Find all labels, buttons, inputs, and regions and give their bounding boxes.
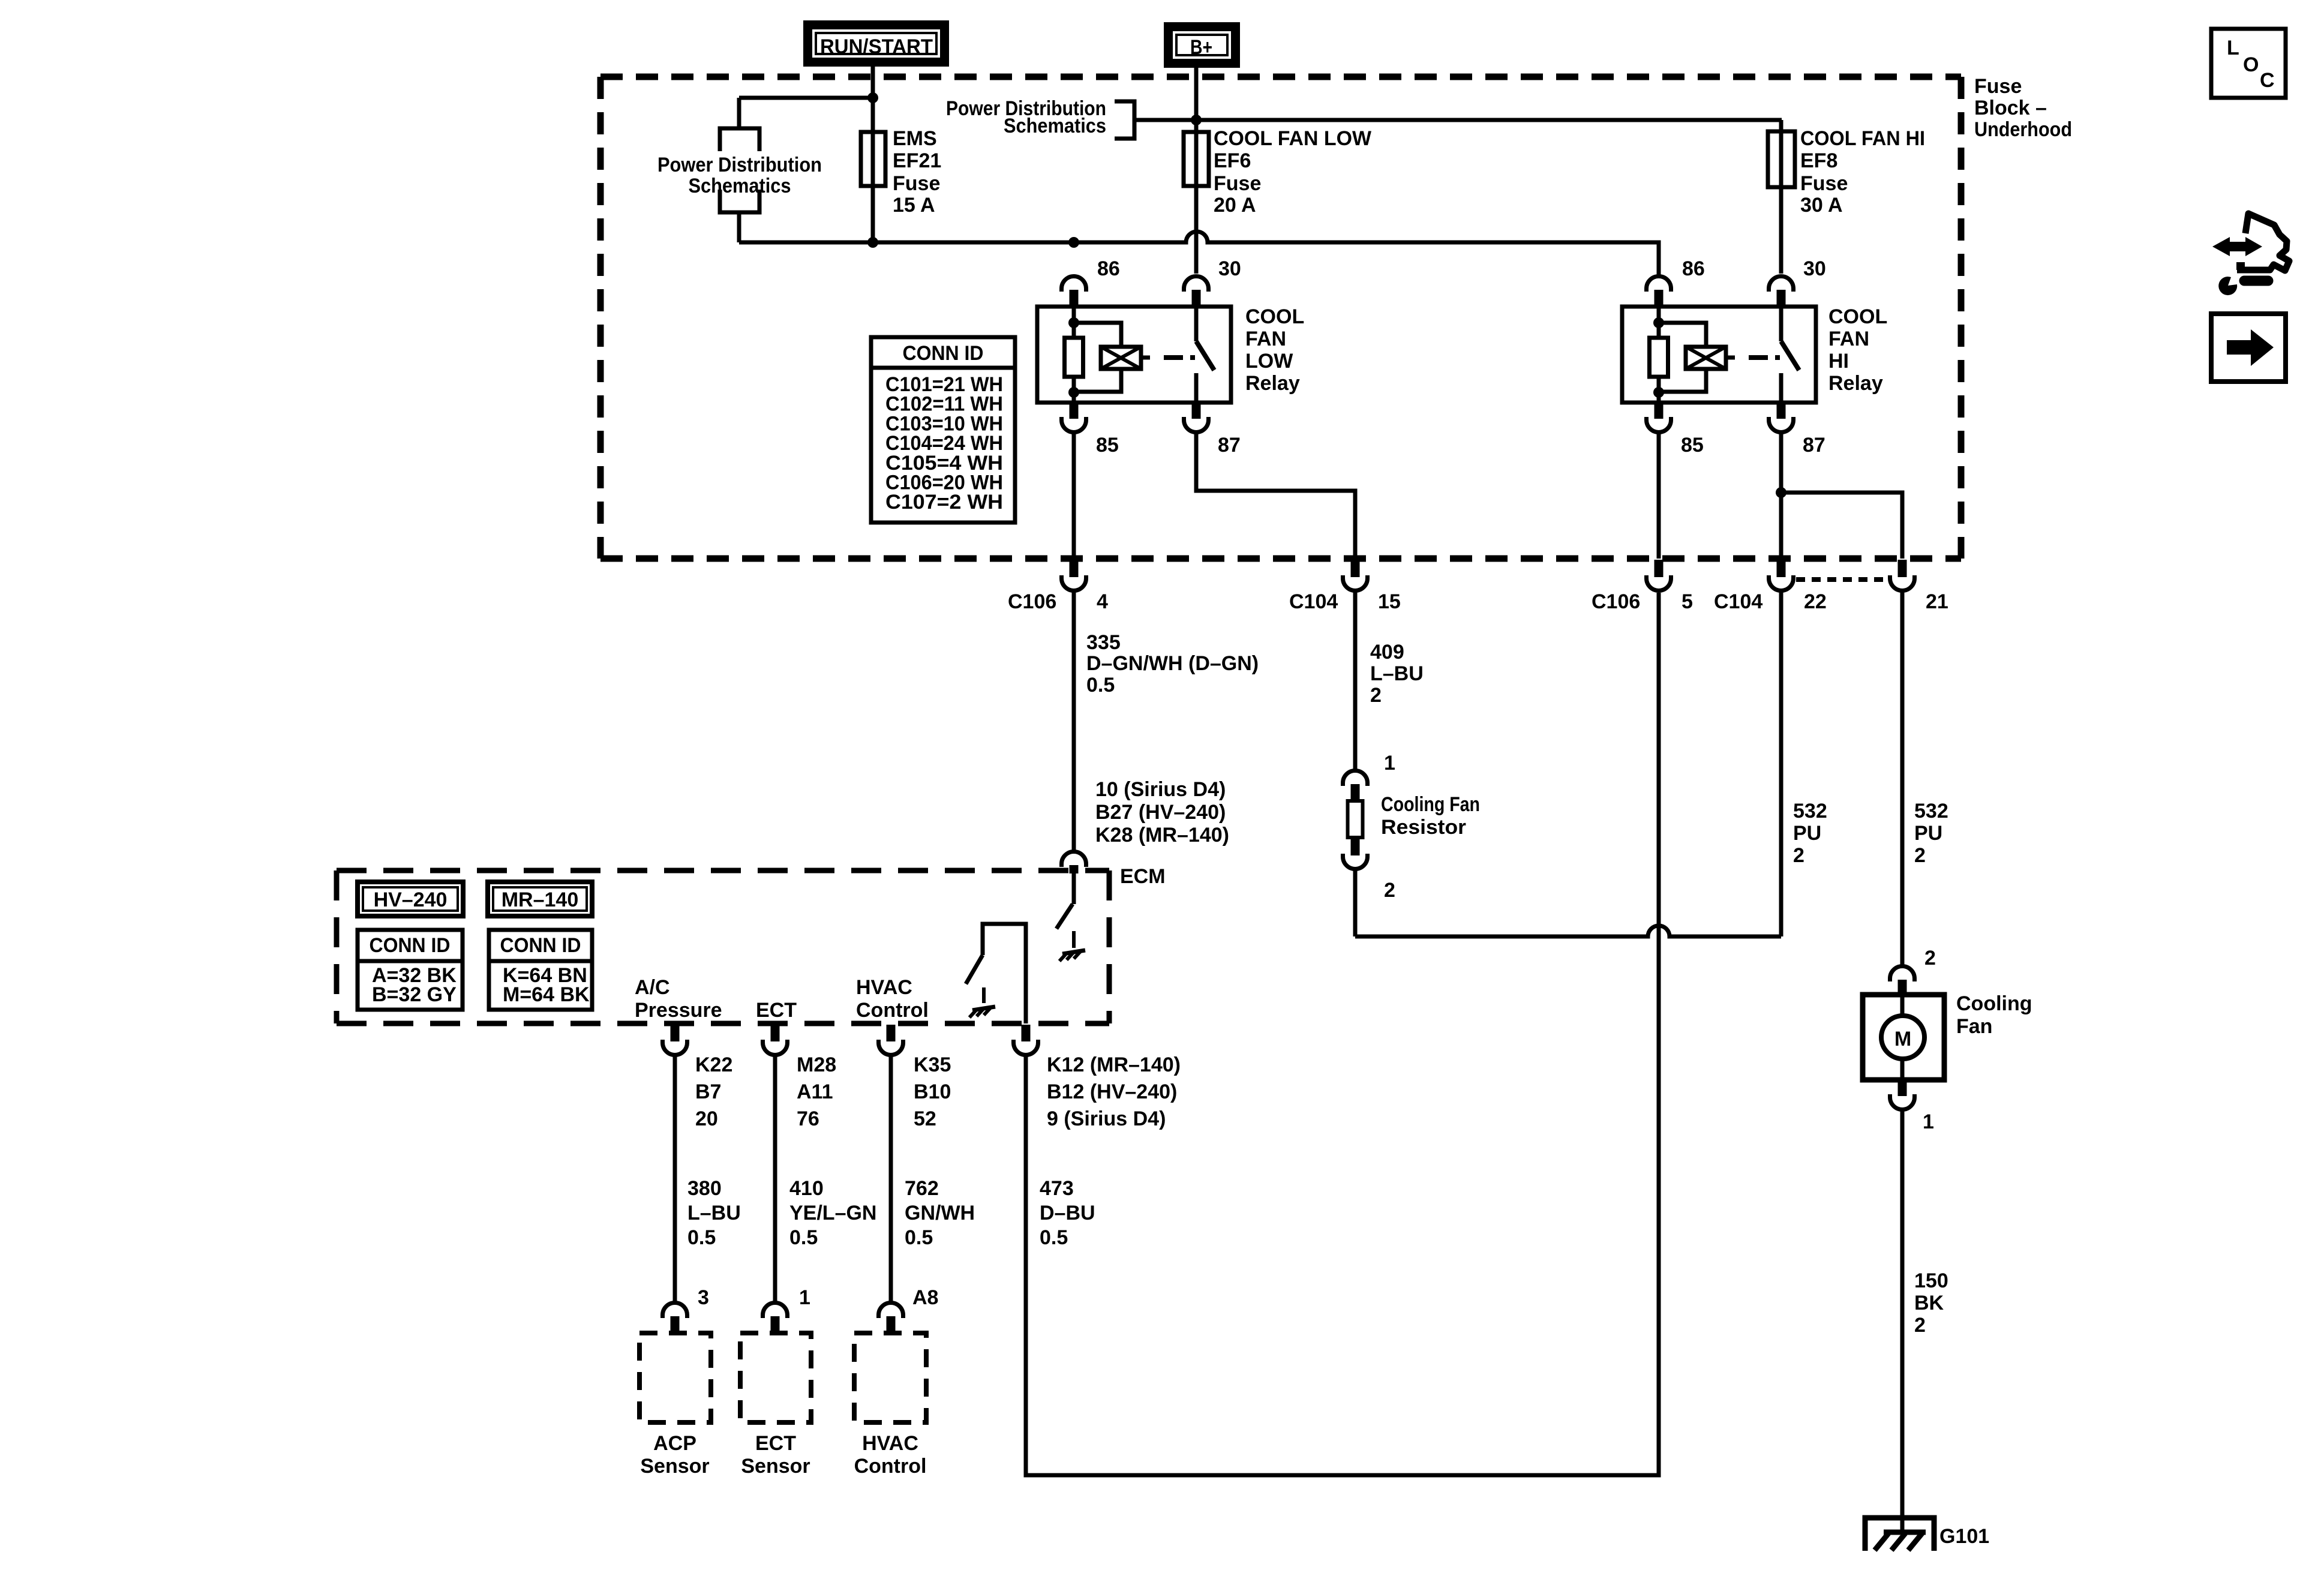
svg-text:B7: B7 xyxy=(695,1080,721,1103)
svg-text:2: 2 xyxy=(1924,947,1936,969)
labels ECM pin references K22 B7 20 xyxy=(695,1053,732,1130)
relay COOL FAN HI switch xyxy=(1781,307,1799,403)
svg-text:Resistor: Resistor xyxy=(1381,816,1466,839)
svg-text:B10: B10 xyxy=(914,1080,951,1103)
label HVAC Control xyxy=(854,1432,927,1478)
svg-text:YE/L–GN: YE/L–GN xyxy=(789,1202,876,1224)
wire: 86-feed bus with hop over EF6 wire xyxy=(739,232,1659,275)
svg-text:532: 532 xyxy=(1914,800,1948,822)
svg-text:COOL: COOL xyxy=(1828,305,1887,328)
svg-text:532: 532 xyxy=(1793,800,1827,822)
label wire 409 L-BU 2 xyxy=(1370,641,1424,707)
svg-text:1: 1 xyxy=(1384,752,1395,775)
svg-text:Fuse: Fuse xyxy=(1800,172,1848,195)
HVAC Control dashed box xyxy=(854,1333,926,1422)
svg-text:86: 86 xyxy=(1682,257,1705,280)
svg-text:COOL FAN LOW: COOL FAN LOW xyxy=(1214,127,1372,150)
sensor pin labels 3 1 A8 xyxy=(698,1286,938,1309)
label A/C Pressure xyxy=(635,976,722,1022)
label wire 532 PU 2 (left) xyxy=(1793,800,1827,867)
svg-text:M: M xyxy=(1894,1028,1911,1050)
labels M28 A11 76 xyxy=(797,1053,836,1130)
motor M symbol xyxy=(1881,1016,1924,1059)
svg-text:2: 2 xyxy=(1914,844,1926,867)
svg-text:0.5: 0.5 xyxy=(1086,674,1115,697)
svg-text:HV–240: HV–240 xyxy=(374,888,448,911)
label wire 762 GN/WH 0.5 xyxy=(905,1177,975,1249)
svg-text:M=64 BK: M=64 BK xyxy=(503,983,590,1006)
wire: B+ feed across to EF8 fuse xyxy=(1196,120,1782,274)
relay COOL FAN HI coil X-box symbol xyxy=(1686,347,1735,369)
relay COOL FAN LOW: pin 87 connector xyxy=(1184,403,1209,432)
svg-text:Underhood: Underhood xyxy=(1974,118,2072,141)
svg-text:85: 85 xyxy=(1096,434,1119,457)
svg-text:G101: G101 xyxy=(1939,1525,1989,1548)
svg-text:C104: C104 xyxy=(1714,590,1762,613)
node: bus junction at EMS fuse xyxy=(867,237,878,248)
svg-text:87: 87 xyxy=(1218,434,1241,457)
relay COOL FAN HI: pin 87 connector xyxy=(1769,403,1794,432)
svg-text:Fuse: Fuse xyxy=(893,172,940,195)
pin labels 86 30 85 87 of relay COOL FAN HI xyxy=(1681,257,1826,457)
dashed link between C104 cavities 22 and 21 xyxy=(1796,577,1888,582)
ECM CONN ID table A/B xyxy=(358,930,463,1010)
svg-text:15 A: 15 A xyxy=(893,194,935,217)
svg-text:0.5: 0.5 xyxy=(1040,1226,1068,1249)
svg-text:C: C xyxy=(2260,69,2275,92)
svg-text:52: 52 xyxy=(914,1107,936,1130)
svg-text:K28 (MR–140): K28 (MR–140) xyxy=(1095,824,1229,846)
svg-text:9 (Sirius D4): 9 (Sirius D4) xyxy=(1047,1107,1166,1130)
relay COOL FAN LOW actuation dashed link xyxy=(1164,355,1195,360)
relay COOL FAN HI coil circuit with parallel resistor xyxy=(1650,307,1707,403)
fuse EMS EF21 15A xyxy=(861,132,885,186)
svg-text:LOW: LOW xyxy=(1245,350,1293,373)
pin labels 86 30 85 87 of relay COOL FAN LOW xyxy=(1096,257,1241,457)
relay COOL FAN LOW coil X-box symbol xyxy=(1101,347,1150,369)
svg-text:2: 2 xyxy=(1370,684,1382,707)
svg-text:5: 5 xyxy=(1682,590,1693,613)
svg-text:C104: C104 xyxy=(1289,590,1338,613)
relay COOL FAN LOW coil circuit with parallel resistor xyxy=(1065,307,1122,403)
wire: RUN/START feed down to node xyxy=(871,67,875,98)
svg-text:Schematics: Schematics xyxy=(1004,115,1106,137)
relay COOL FAN HI outline box xyxy=(1622,307,1816,403)
svg-text:EF21: EF21 xyxy=(893,149,941,172)
fuse block dashed boundary (Fuse Block - Underhood) xyxy=(600,77,1961,559)
svg-text:M28: M28 xyxy=(797,1053,836,1076)
labels K12 (MR-140) B12 (HV-240) 9 (Sirius D4) xyxy=(1047,1053,1181,1130)
label wire 473 D-BU 0.5 xyxy=(1040,1177,1095,1249)
svg-text:EMS: EMS xyxy=(893,127,937,150)
svg-text:HVAC: HVAC xyxy=(862,1432,918,1455)
svg-text:A11: A11 xyxy=(797,1080,833,1103)
fuse COOL FAN LOW EF6 20A xyxy=(1184,132,1209,186)
ECM internal driver switch (cooling fan low command) xyxy=(1056,873,1074,948)
label COOL FAN HI EF8 Fuse 30 A xyxy=(1800,127,1925,217)
svg-text:O: O xyxy=(2243,53,2259,76)
label ECM xyxy=(1120,865,1166,888)
svg-text:85: 85 xyxy=(1681,434,1704,457)
svg-text:86: 86 xyxy=(1097,257,1120,280)
wire: relay LOW 87 to C104 pin 15 xyxy=(1196,433,1355,559)
wire 335 D-GN/WH: C106-4 to ECM xyxy=(1072,592,1076,852)
svg-text:Sensor: Sensor xyxy=(640,1455,709,1478)
ground G101 symbol xyxy=(1865,1518,1934,1551)
svg-text:CONN ID: CONN ID xyxy=(903,342,984,365)
relay COOL FAN HI: pin 86 connector xyxy=(1647,276,1671,307)
svg-text:76: 76 xyxy=(797,1107,819,1130)
ECT Sensor dashed box xyxy=(740,1333,811,1422)
svg-text:Control: Control xyxy=(856,999,929,1022)
power terminal B+ xyxy=(1169,27,1236,64)
svg-text:87: 87 xyxy=(1803,434,1825,457)
svg-text:21: 21 xyxy=(1926,590,1948,613)
labels C106 4 xyxy=(1008,590,1108,613)
svg-text:2: 2 xyxy=(1793,844,1804,867)
relay COOL FAN LOW outline box xyxy=(1037,307,1231,403)
svg-text:4: 4 xyxy=(1097,590,1108,613)
wire: junction to left Power Distribution bracket xyxy=(739,98,873,128)
relay COOL FAN LOW: pin 30 connector xyxy=(1184,276,1209,307)
node: 87 branch junction xyxy=(1776,487,1786,498)
cooling fan pin 2 connector xyxy=(1890,947,1936,995)
svg-text:MR–140: MR–140 xyxy=(502,888,579,911)
label wire 335 D-GN/WH (D-GN) 0.5 xyxy=(1086,631,1259,697)
cooling fan pin 1 connector xyxy=(1890,1080,1934,1133)
relay COOL FAN HI: pin 85 connector xyxy=(1647,403,1671,432)
connector HVAC control pin A8 xyxy=(878,1303,903,1334)
svg-text:150: 150 xyxy=(1914,1269,1948,1292)
svg-text:Sensor: Sensor xyxy=(741,1455,810,1478)
svg-text:A/C: A/C xyxy=(635,976,670,999)
svg-text:0.5: 0.5 xyxy=(905,1226,933,1249)
svg-text:Cooling Fan: Cooling Fan xyxy=(1381,793,1480,816)
svg-text:Control: Control xyxy=(854,1455,927,1478)
svg-text:ECT: ECT xyxy=(755,1432,796,1455)
svg-text:B+: B+ xyxy=(1190,36,1212,59)
ECM harness tag box MR-140 xyxy=(488,882,592,916)
label wire 532 PU 2 (right) xyxy=(1914,800,1948,867)
svg-text:Fuse: Fuse xyxy=(1214,172,1261,195)
connector ACP sensor pin 3 xyxy=(663,1303,687,1334)
ECM connector for wire 335 (umbrella into ECM) xyxy=(1061,851,1086,873)
relay COOL FAN LOW: pin 86 connector xyxy=(1061,276,1086,307)
label ECM pin ref 10 B27 K28 xyxy=(1095,778,1229,846)
svg-text:C106: C106 xyxy=(1592,590,1640,613)
svg-text:ACP: ACP xyxy=(653,1432,696,1455)
svg-text:L–BU: L–BU xyxy=(687,1202,741,1224)
wire 532 PU: C104-22 down and across to resistor leg, hop over C106-5 wire xyxy=(1355,592,1781,936)
ECM bottom connector K22 A/C pressure xyxy=(663,1025,687,1055)
wire: relay HI 87 down to C104 pin 22 xyxy=(1779,433,1783,559)
svg-text:380: 380 xyxy=(687,1177,722,1200)
label ACP Sensor xyxy=(640,1432,709,1478)
svg-text:EF8: EF8 xyxy=(1800,149,1837,172)
svg-text:C106: C106 xyxy=(1008,590,1056,613)
svg-text:20: 20 xyxy=(695,1107,718,1130)
connector C104 pin 15 xyxy=(1343,560,1368,590)
ECM harness tag box HV-240 xyxy=(358,882,463,916)
svg-text:RUN/START: RUN/START xyxy=(820,35,933,58)
svg-text:COOL: COOL xyxy=(1245,305,1304,328)
svg-text:Relay: Relay xyxy=(1245,372,1300,395)
svg-text:B27 (HV–240): B27 (HV–240) xyxy=(1095,801,1226,824)
resistor: Cooling Fan Resistor xyxy=(1348,801,1363,837)
ECM internal ground (right) xyxy=(1059,950,1085,961)
wire: relay LOW 85 to C106 pin 4 xyxy=(1072,433,1076,559)
svg-text:2: 2 xyxy=(1384,879,1395,902)
icon forward arrow box xyxy=(2211,314,2286,382)
svg-text:762: 762 xyxy=(905,1177,939,1200)
icon LOC box xyxy=(2211,29,2286,98)
labels C106 5 xyxy=(1592,590,1693,613)
cooling fan resistor pin 2 connector xyxy=(1343,837,1395,902)
ECM CONN ID table K/M xyxy=(489,930,592,1010)
svg-text:CONN ID: CONN ID xyxy=(500,934,581,957)
connector C104 pin 21 xyxy=(1890,560,1915,590)
label Cooling Fan xyxy=(1956,992,2032,1038)
wire: branch to fuse block pin 21 xyxy=(1781,493,1902,559)
svg-text:473: 473 xyxy=(1040,1177,1074,1200)
svg-text:L–BU: L–BU xyxy=(1370,662,1424,685)
power terminal RUN/START xyxy=(808,25,945,62)
svg-text:3: 3 xyxy=(698,1286,709,1309)
wire 409 L-BU: C104-15 to resistor xyxy=(1353,592,1358,772)
off-page bracket (right) Power Distribution Schematics xyxy=(946,97,1196,139)
CONN ID table xyxy=(871,337,1015,523)
svg-text:K22: K22 xyxy=(695,1053,732,1076)
cooling fan resistor pin 1 connector xyxy=(1343,752,1395,801)
labels C104 22 21 xyxy=(1714,590,1948,613)
label Fuse Block - Underhood xyxy=(1974,75,2072,141)
svg-text:HVAC: HVAC xyxy=(856,976,912,999)
wire 532 PU: pin 21 to cooling fan pin 2 xyxy=(1900,592,1905,965)
wire: EMS fuse feed xyxy=(871,98,875,242)
svg-text:B12 (HV–240): B12 (HV–240) xyxy=(1047,1080,1177,1103)
svg-text:30: 30 xyxy=(1218,257,1241,280)
connector ECT sensor pin 1 xyxy=(763,1303,788,1334)
svg-text:30: 30 xyxy=(1803,257,1826,280)
cooling fan motor box xyxy=(1863,995,1944,1080)
wire 410 YE/L-GN to ECT sensor xyxy=(773,1056,777,1302)
svg-text:15: 15 xyxy=(1378,590,1401,613)
ECM internal ground (left) xyxy=(969,1007,995,1017)
node: bus junction at COOL FAN LOW relay 86 xyxy=(1068,237,1079,248)
svg-text:ECM: ECM xyxy=(1120,865,1166,888)
svg-text:K35: K35 xyxy=(914,1053,951,1076)
label wire 410 YE/L-GN 0.5 xyxy=(789,1177,876,1249)
label relay COOL FAN HI name xyxy=(1828,305,1887,395)
wire: B+ drop through EF6 fuse to relay 30 xyxy=(1194,68,1199,274)
relay COOL FAN HI actuation dashed link xyxy=(1749,355,1780,360)
svg-text:HI: HI xyxy=(1828,350,1849,373)
ACP Sensor dashed box xyxy=(639,1333,711,1422)
ECM bottom connector K35 HVAC xyxy=(878,1025,903,1055)
label G101 xyxy=(1939,1525,1989,1548)
svg-text:Block –: Block – xyxy=(1974,97,2047,119)
svg-text:CONN ID: CONN ID xyxy=(370,934,451,957)
svg-text:FAN: FAN xyxy=(1245,328,1286,350)
svg-text:ECT: ECT xyxy=(756,999,797,1022)
svg-text:L: L xyxy=(2227,37,2239,59)
fuse COOL FAN HI EF8 30A xyxy=(1768,131,1795,187)
svg-text:409: 409 xyxy=(1370,641,1404,664)
relay COOL FAN LOW switch xyxy=(1196,307,1214,403)
relay COOL FAN LOW: pin 85 connector xyxy=(1061,403,1086,432)
label relay COOL FAN LOW name xyxy=(1245,305,1304,395)
ECM dashed box xyxy=(337,870,1109,1023)
off-page bracket (left) Power Distribution Schematics xyxy=(657,128,822,212)
svg-text:PU: PU xyxy=(1914,822,1942,845)
svg-text:B=32 GY: B=32 GY xyxy=(372,983,457,1006)
svg-text:22: 22 xyxy=(1804,590,1827,613)
wire: bracket to bus xyxy=(737,212,741,242)
wire 762 GN/WH to HVAC control xyxy=(889,1056,893,1302)
svg-text:K12 (MR–140): K12 (MR–140) xyxy=(1047,1053,1181,1076)
label ECT Sensor xyxy=(741,1432,810,1478)
svg-text:COOL FAN HI: COOL FAN HI xyxy=(1800,127,1925,150)
wire 380 L-BU to ACP sensor xyxy=(673,1056,677,1302)
label HVAC Control xyxy=(856,976,929,1022)
svg-text:Pressure: Pressure xyxy=(635,999,722,1022)
svg-text:BK: BK xyxy=(1914,1292,1944,1314)
ECM bottom connector M28 ECT xyxy=(763,1025,788,1055)
svg-text:30 A: 30 A xyxy=(1800,194,1843,217)
label EMS EF21 Fuse 15 A xyxy=(893,127,941,217)
connector C106 pin 4 xyxy=(1061,560,1086,590)
svg-text:20 A: 20 A xyxy=(1214,194,1256,217)
svg-text:2: 2 xyxy=(1914,1314,1926,1337)
label COOL FAN LOW EF6 Fuse 20 A xyxy=(1214,127,1372,217)
svg-text:Power Distribution: Power Distribution xyxy=(657,154,822,176)
ECM internal switch for sensor inputs xyxy=(966,924,1026,1023)
svg-text:10 (Sirius D4): 10 (Sirius D4) xyxy=(1095,778,1226,801)
connector C104 pin 22 xyxy=(1769,560,1794,590)
labels K35 B10 52 xyxy=(914,1053,951,1130)
svg-text:Relay: Relay xyxy=(1828,372,1883,395)
ECM bottom connector K12 fan command xyxy=(1014,1025,1038,1055)
label wire 380 L-BU 0.5 xyxy=(687,1177,741,1249)
svg-text:D–BU: D–BU xyxy=(1040,1202,1095,1224)
svg-text:Fuse: Fuse xyxy=(1974,75,2022,98)
svg-text:PU: PU xyxy=(1793,822,1821,845)
wire 150 BK to ground G101 xyxy=(1900,1110,1905,1532)
relay COOL FAN HI: pin 30 connector xyxy=(1769,276,1794,307)
svg-text:FAN: FAN xyxy=(1828,328,1869,350)
svg-text:0.5: 0.5 xyxy=(789,1226,818,1249)
wire: relay HI 85 to C106 pin 5 xyxy=(1657,433,1661,559)
svg-text:GN/WH: GN/WH xyxy=(905,1202,975,1224)
svg-text:D–GN/WH (D–GN): D–GN/WH (D–GN) xyxy=(1086,652,1259,675)
svg-text:0.5: 0.5 xyxy=(687,1226,716,1249)
svg-text:C107=2 WH: C107=2 WH xyxy=(885,491,1003,514)
svg-text:1: 1 xyxy=(1923,1110,1934,1133)
node: RUN/START junction xyxy=(867,92,878,103)
svg-text:410: 410 xyxy=(789,1177,824,1200)
node: B+ junction xyxy=(1191,115,1202,125)
label wire 150 BK 2 xyxy=(1914,1269,1948,1337)
wire 473 D-BU: K12 to relay HI 85 circuit xyxy=(1026,593,1659,1475)
svg-text:Schematics: Schematics xyxy=(689,175,791,197)
label ECT xyxy=(756,999,797,1022)
connector C106 pin 5 xyxy=(1647,560,1671,590)
label Cooling Fan Resistor xyxy=(1381,793,1480,839)
svg-text:Fan: Fan xyxy=(1956,1015,1992,1038)
svg-text:1: 1 xyxy=(799,1286,810,1309)
svg-text:A8: A8 xyxy=(912,1286,938,1309)
labels C104 15 xyxy=(1289,590,1401,613)
svg-text:EF6: EF6 xyxy=(1214,149,1251,172)
icon vehicle navigation (double arrow, outline, wrench) xyxy=(2212,214,2289,295)
svg-text:335: 335 xyxy=(1086,631,1121,654)
svg-text:Cooling: Cooling xyxy=(1956,992,2032,1015)
